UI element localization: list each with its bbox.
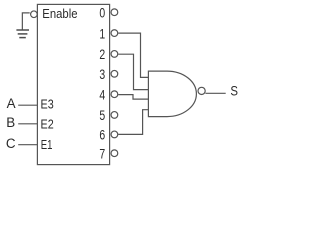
wire output1 to gate input 1: [118, 33, 148, 77]
wire output2 to gate input 2: [118, 54, 148, 89]
svg-text:4: 4: [99, 88, 105, 103]
output bubble 0: [111, 9, 118, 16]
output bubble 6: [111, 131, 118, 138]
wire Enable to ground: [22, 13, 29, 30]
wire output4 to gate input 3: [118, 95, 148, 100]
svg-text:B: B: [6, 115, 15, 130]
svg-text:C: C: [6, 136, 16, 151]
svg-text:0: 0: [99, 5, 105, 20]
output bubble 1: [111, 30, 118, 37]
decoder chip U1 body: [37, 4, 109, 164]
output bubble 5: [111, 112, 118, 119]
svg-text:2: 2: [99, 47, 105, 62]
output bubble 7: [111, 150, 118, 157]
NAND gate U2 body: [148, 71, 196, 117]
svg-text:S: S: [230, 84, 238, 99]
NAND output inversion bubble: [198, 87, 205, 94]
ground: [16, 30, 29, 38]
svg-text:E3: E3: [41, 96, 54, 111]
svg-text:3: 3: [99, 67, 105, 82]
Enable input bubble: [31, 11, 38, 18]
svg-text:7: 7: [99, 147, 105, 162]
wire output6 to gate input 4: [118, 110, 148, 135]
output bubble 4: [111, 91, 118, 98]
svg-text:E1: E1: [41, 137, 53, 152]
wire C: [18, 144, 37, 146]
svg-text:Enable: Enable: [42, 6, 77, 21]
wire A: [18, 104, 37, 106]
svg-text:1: 1: [99, 26, 105, 41]
svg-text:5: 5: [99, 108, 105, 123]
svg-text:A: A: [7, 96, 16, 111]
wire gate output to S: [205, 92, 225, 94]
wire B: [18, 123, 37, 125]
output bubble 2: [111, 51, 118, 58]
output bubble 3: [111, 70, 118, 77]
svg-text:6: 6: [99, 128, 105, 143]
svg-text:E2: E2: [41, 117, 54, 132]
